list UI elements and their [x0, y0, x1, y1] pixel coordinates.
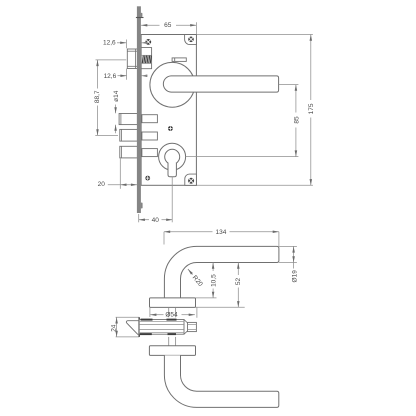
- leader 85 bottom: [186, 156, 299, 158]
- screw tab bottom-right: [185, 174, 197, 185]
- dimension 134: [164, 229, 279, 247]
- svg-text:12,6: 12,6: [104, 73, 117, 80]
- cylinder keyway stem: [168, 163, 176, 177]
- spindle shaft lower: [168, 337, 170, 346]
- svg-text:12,6: 12,6: [103, 39, 116, 46]
- dimension 10,5: [196, 263, 218, 298]
- dimension 88,7: [94, 60, 126, 135]
- screw tab top-right: [185, 35, 197, 45]
- screw dot upper: [168, 126, 173, 131]
- faceplate: [136, 6, 144, 213]
- bolt opening 1: [142, 115, 158, 123]
- leader R20: [187, 268, 204, 288]
- spindle clip wedge: [116, 317, 140, 337]
- screw in bottom-right tab: [188, 178, 194, 184]
- svg-text:40: 40: [152, 217, 160, 224]
- svg-text:24: 24: [111, 324, 118, 332]
- svg-text:85: 85: [294, 116, 301, 124]
- lower lever grip side view: [164, 355, 278, 407]
- svg-text:52: 52: [235, 278, 242, 286]
- svg-text:20: 20: [98, 181, 106, 188]
- dimension diameter 54: [150, 307, 197, 318]
- dimension diameter 19: [279, 246, 298, 282]
- dimension 12,6 upper: [103, 39, 148, 48]
- svg-text:134: 134: [215, 229, 226, 236]
- case bottom extension line: [196, 184, 313, 186]
- latch bolt: [127, 49, 137, 69]
- dimension 175: [308, 35, 315, 186]
- upper lever grip side view: [164, 246, 279, 298]
- cylinder profile circle: [165, 149, 180, 164]
- svg-text:Ø54: Ø54: [165, 311, 178, 318]
- spindle assembly: [139, 320, 196, 335]
- screw head top-left of case: [145, 39, 151, 45]
- leader 85 top: [279, 84, 299, 86]
- case top extension line: [196, 34, 313, 36]
- deadbolt bar 1: [119, 114, 137, 125]
- dimension 12,6 lower: [104, 69, 148, 80]
- svg-text:R20: R20: [191, 274, 204, 288]
- bolt opening 2: [142, 132, 158, 140]
- svg-text:65: 65: [164, 22, 172, 29]
- clip on rose top: [172, 58, 186, 62]
- spindle shaft upper: [168, 307, 170, 317]
- dimension 24: [111, 317, 118, 337]
- bolt opening 3: [142, 149, 158, 157]
- svg-text:88,7: 88,7: [94, 90, 101, 103]
- dimension 85: [294, 85, 301, 157]
- dimension 20: [98, 159, 138, 189]
- dimension diameter 14: [113, 90, 120, 133]
- lock case: [141, 35, 196, 186]
- screw dot lower: [145, 176, 150, 181]
- screw in top-right tab: [188, 37, 194, 43]
- dimension 40: [139, 177, 173, 225]
- svg-text:Ø19: Ø19: [291, 270, 298, 283]
- deadbolt bar 2: [120, 129, 138, 141]
- svg-text:ø14: ø14: [113, 90, 120, 102]
- cylinder outer circle: [159, 143, 186, 170]
- latch spring housing: [141, 48, 152, 69]
- deadbolt bar 3: [120, 146, 138, 158]
- lower rose: [149, 346, 195, 356]
- svg-text:175: 175: [308, 103, 315, 114]
- dimension 52: [196, 263, 245, 308]
- dimension 65: [141, 22, 196, 34]
- latch spring coils: [142, 56, 151, 64]
- rose circle: [150, 62, 195, 107]
- lever handle plan view: [163, 76, 278, 92]
- upper rose: [150, 298, 196, 308]
- svg-text:10,5: 10,5: [211, 274, 218, 287]
